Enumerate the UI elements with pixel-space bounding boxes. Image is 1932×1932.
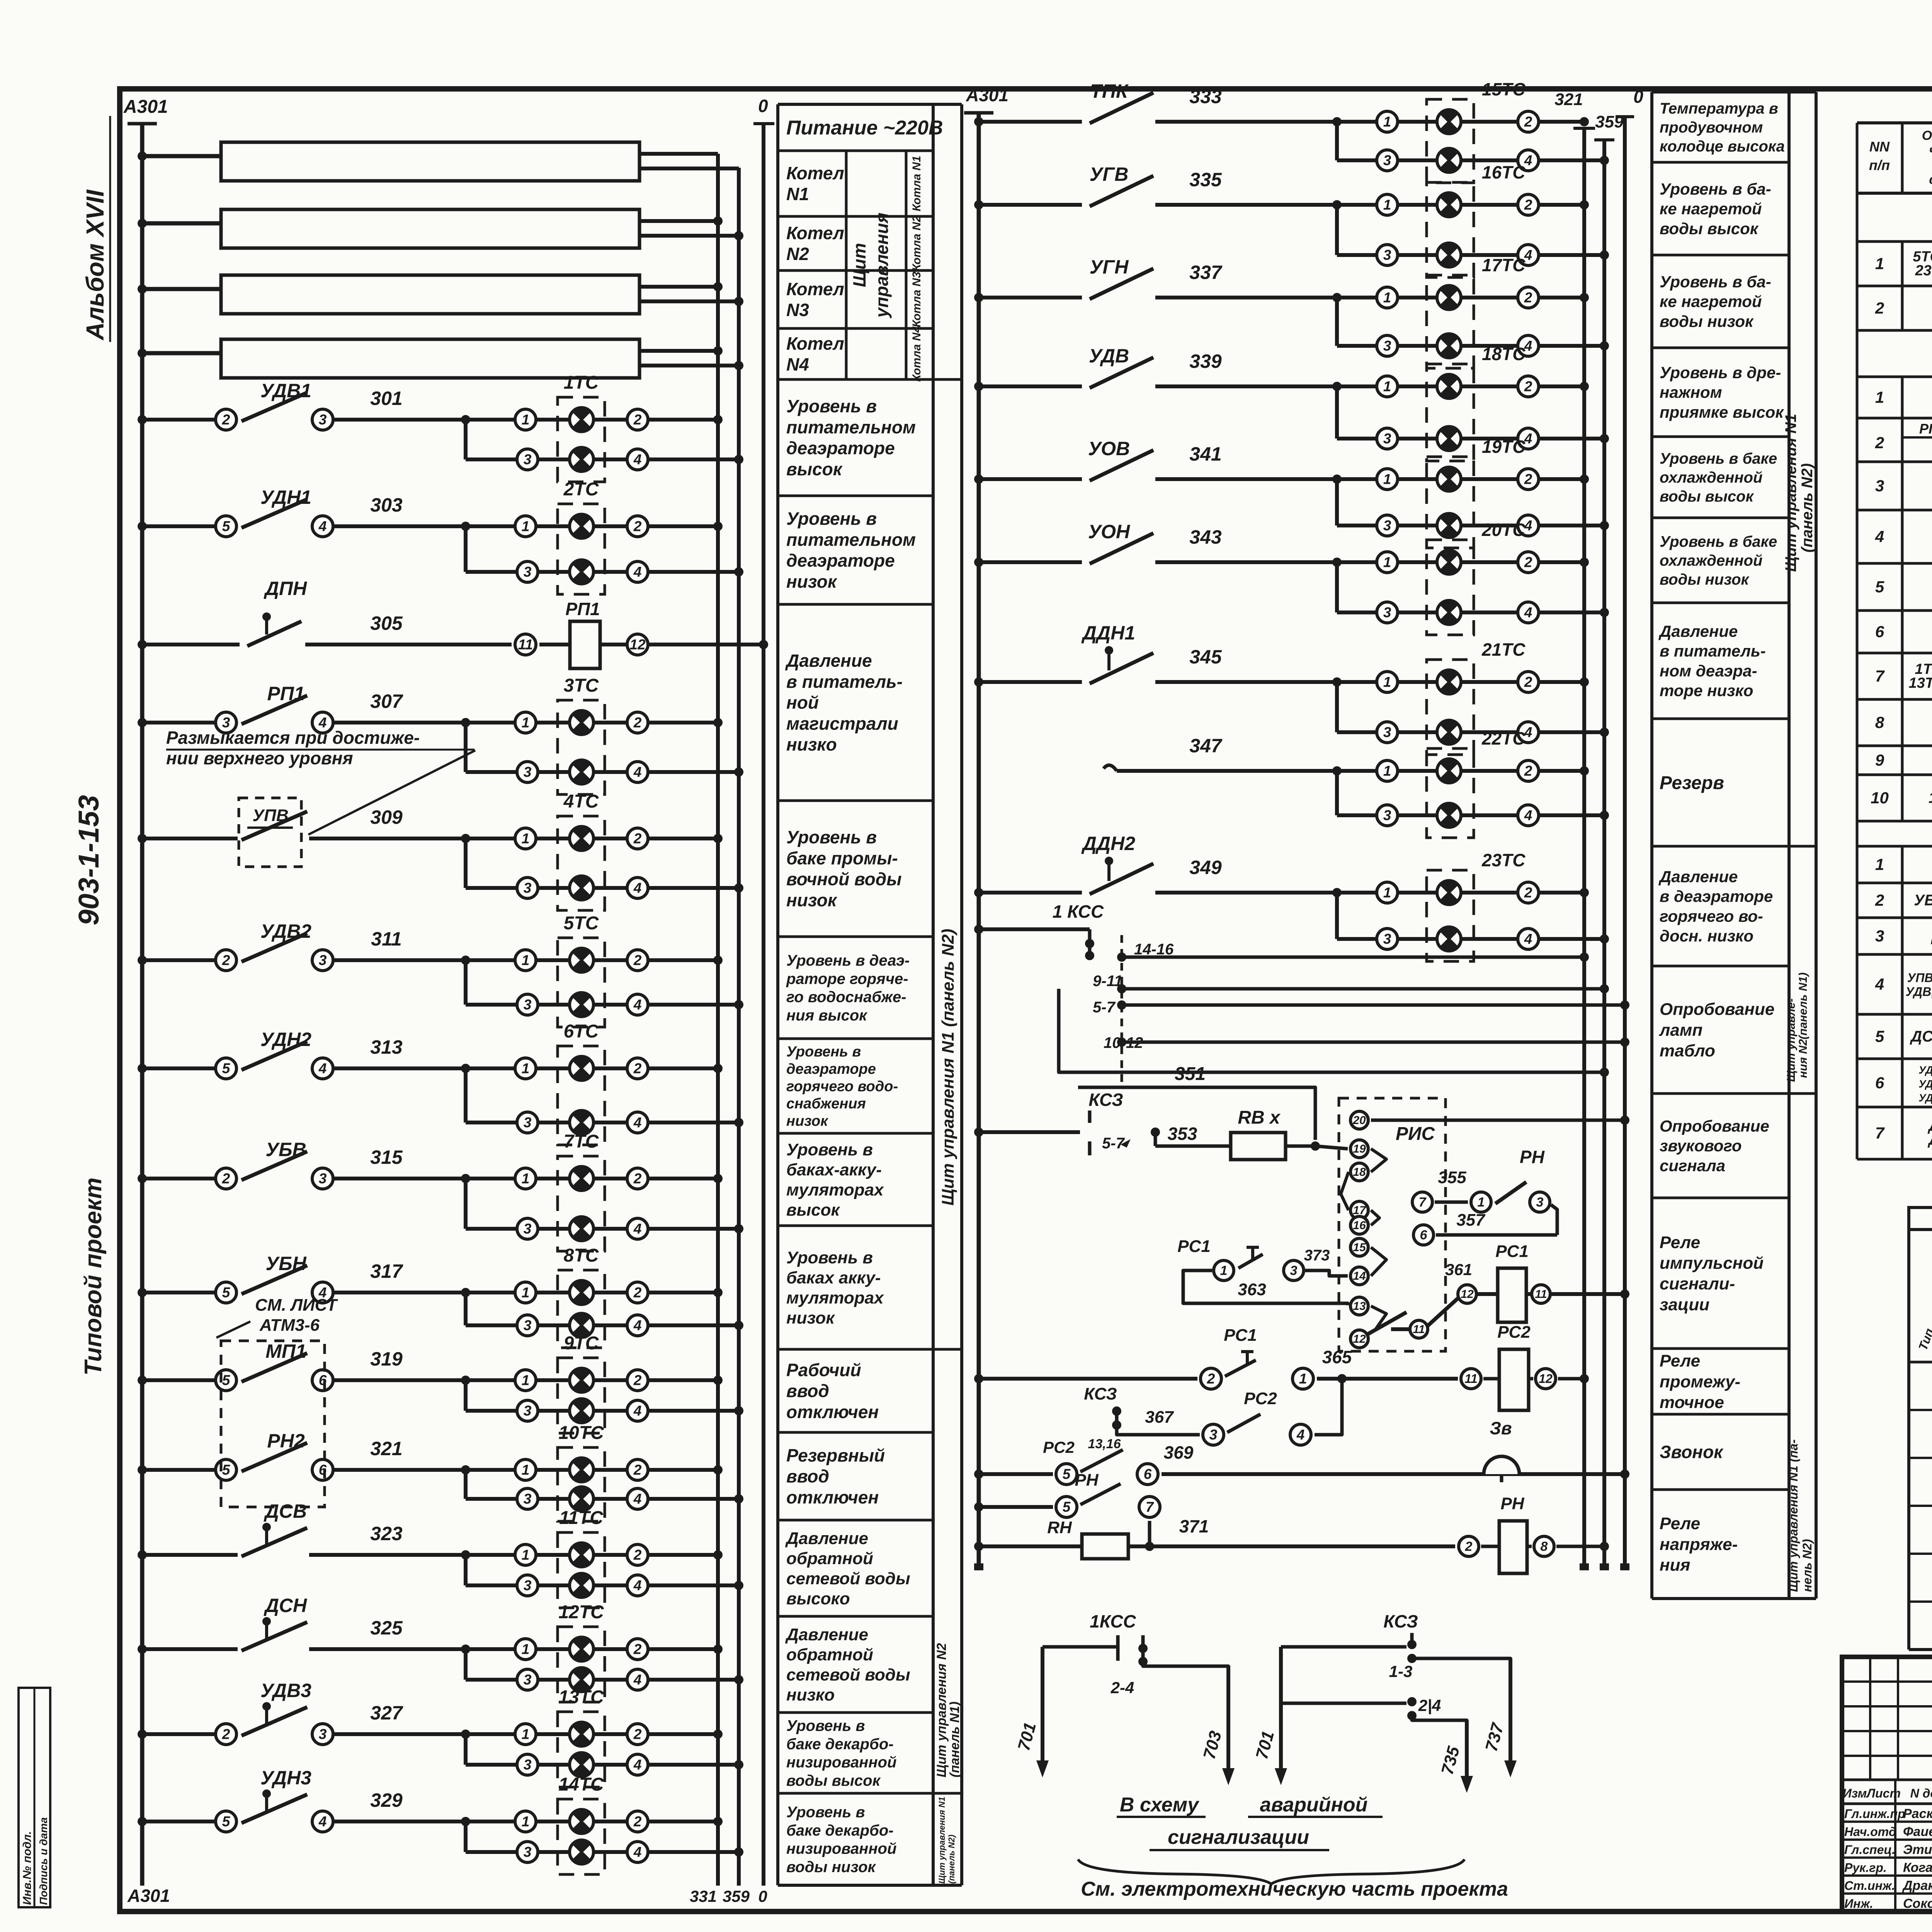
svg-text:3: 3 [1209,1427,1218,1443]
wire Kotel N3 box to collector 331 [639,285,718,289]
svg-text:371: 371 [1179,1516,1209,1536]
svg-text:2: 2 [222,1171,230,1187]
table row B9 (bell) [1856,746,1859,775]
svg-text:Уровень в ба-: Уровень в ба- [1660,180,1771,198]
svg-text:УПВ,УГВ,УГН: УПВ,УГВ,УГН [1907,971,1932,985]
svg-text:1: 1 [1383,290,1391,306]
bus 359 right (vertical) [1602,139,1606,1568]
signal rung 327 (УДВ3) [142,1732,222,1736]
svg-text:2: 2 [633,1372,642,1388]
svg-text:Температура в: Температура в [1660,100,1778,117]
RS1 coil wiring [1428,1298,1458,1326]
lamp board 6ТС dashed box [558,1046,605,1145]
RIS pin 15 [1350,1238,1368,1256]
svg-text:Коганов: Коганов [1903,1861,1932,1875]
svg-text:4: 4 [633,1115,642,1131]
svg-text:Уровень в: Уровень в [786,1248,873,1267]
column1 cell: Давление [778,1711,933,1714]
svg-text:Размыкается при достиже-: Размыкается при достиже- [166,728,420,748]
table row C3 (EKM) [1856,918,1859,954]
lamp board 23ТС dashed box [1427,870,1474,961]
wire 363 to RIS pin 13 [1183,1270,1348,1305]
remote contacts MP1 RN2 dashed box [221,1341,325,1507]
svg-text:УГВ: УГВ [1090,163,1129,185]
svg-text:12: 12 [1539,1372,1553,1386]
svg-text:2: 2 [1524,197,1532,213]
svg-text:1: 1 [1383,114,1391,130]
svg-text:2: 2 [633,1462,642,1478]
svg-text:воды низок: воды низок [1660,312,1754,330]
svg-text:2: 2 [633,1547,642,1563]
svg-text:УДВ1,УДН1: УДВ1,УДН1 [1918,1078,1932,1090]
lamp board 21ТС dashed box [1427,660,1474,755]
column1 cell: Котел [778,215,933,218]
svg-text:4: 4 [633,1757,642,1773]
svg-text:3: 3 [524,1221,532,1237]
svg-text:колодце высока: колодце высока [1660,138,1785,155]
svg-text:4: 4 [633,452,642,468]
svg-text:701: 701 [1014,1720,1040,1753]
svg-text:УДВ,УОВ,УОН: УДВ,УОВ,УОН [1906,985,1932,999]
bus 321 right (vertical) [1582,128,1586,1568]
RIS pin 13 [1350,1297,1368,1315]
svg-text:1КСС: 1КСС [1090,1611,1136,1631]
svg-text:10: 10 [1871,789,1889,807]
column2 cell: Уровень в ба- [1652,347,1789,349]
svg-text:1КСС: 1КСС [1929,789,1932,806]
svg-text:345: 345 [1189,646,1222,668]
column2 cell: Опробование [1652,1197,1789,1199]
svg-text:4: 4 [318,519,327,534]
svg-text:5-7: 5-7 [1093,999,1116,1016]
svg-text:5: 5 [222,1285,231,1301]
lamp board 16ТС dashed box [1427,182,1474,277]
alarm arrow 701 left [1036,1647,1049,1777]
table row A2 (lamp) [1856,286,1859,330]
svg-text:отключен: отключен [786,1487,879,1507]
svg-text:5: 5 [1875,1027,1884,1046]
svg-text:ввод: ввод [786,1381,829,1401]
svg-text:охлажденной: охлажденной [1660,469,1762,486]
svg-text:0: 0 [1633,87,1643,107]
lamp board 5ТС dashed box [558,938,605,1027]
svg-text:КСЗ: КСЗ [1084,1384,1117,1403]
svg-text:367: 367 [1145,1408,1174,1427]
lamp test wire to bus 359 [1122,987,1604,991]
svg-text:1: 1 [1383,763,1391,779]
svg-text:РН: РН [1075,1471,1099,1490]
svg-text:Уровень в дре-: Уровень в дре- [1660,363,1781,381]
svg-text:Щит управления N1 (па-: Щит управления N1 (па- [1786,1439,1800,1592]
column1 cell: Давление [778,799,933,802]
svg-text:высоко: высоко [786,1589,850,1608]
column2 cell: Реле [1652,1413,1789,1416]
svg-text:4: 4 [318,1061,327,1077]
svg-text:3: 3 [524,880,532,896]
svg-text:1: 1 [1383,471,1391,487]
column2 cell: Реле [1652,1347,1789,1350]
svg-text:15ТС: 15ТС [1482,79,1526,99]
svg-text:12: 12 [1353,1333,1366,1345]
svg-text:2: 2 [1524,554,1532,570]
wire to RIS pin 19 [1315,1146,1348,1149]
svg-text:Котел: Котел [786,163,844,183]
svg-text:низко: низко [786,1685,835,1704]
svg-text:Подпись и дата: Подпись и дата [37,1817,49,1905]
svg-text:20: 20 [1352,1114,1366,1127]
svg-text:Инж.: Инж. [1844,1897,1873,1911]
svg-text:Рук.гр.: Рук.гр. [1844,1861,1887,1875]
bus 331 (vertical, left ladder) [716,154,720,1886]
svg-text:6: 6 [1875,1074,1884,1092]
boiler feeder box Kotel N4 [221,339,639,378]
svg-text:горячего во-: горячего во- [1660,907,1763,925]
title block outer [1842,1657,1932,1912]
svg-text:363: 363 [1238,1280,1266,1299]
lamp board 13ТС dashed box [558,1712,605,1787]
svg-text:4: 4 [633,1844,642,1860]
svg-text:Уровень в: Уровень в [786,1044,861,1060]
RIS pin 20 wire to bus 0 [1371,1119,1625,1122]
alarm arrow 737 [1412,1658,1510,1665]
column2 cell: Давление [1652,965,1789,968]
svg-text:баках акку-: баках акку- [786,1268,881,1287]
svg-text:5: 5 [1875,578,1884,596]
svg-text:15: 15 [1353,1241,1366,1254]
column1 cell: Уровень в [778,1792,933,1795]
svg-text:N1: N1 [786,184,809,204]
svg-text:1ТС: 1ТС [564,372,599,393]
signal rung 335 (УГВ) [979,203,1082,207]
svg-text:Нач.отд: Нач.отд [1844,1825,1896,1839]
lamp board 8ТС dashed box [558,1270,605,1348]
wire Kotel N4 box to collector 359 [639,364,739,367]
contact RS1 with button [1214,1260,1234,1281]
svg-text:Инв.№ подл.: Инв.№ подл. [21,1831,34,1905]
svg-text:23ТС,22С: 23ТС,22С [1915,263,1932,279]
svg-text:13,16: 13,16 [1088,1437,1121,1451]
svg-text:УОВ: УОВ [1088,438,1130,459]
svg-text:16: 16 [1353,1219,1366,1232]
svg-text:4ТС: 4ТС [563,791,599,812]
curly brace [1078,1859,1464,1884]
svg-text:импульсной: импульсной [1660,1254,1764,1273]
lamp board 20ТС dashed box [1427,540,1474,635]
svg-text:5: 5 [222,1372,231,1388]
svg-text:низированной: низированной [786,1754,896,1771]
signal rung 319 (МП1) [142,1378,222,1382]
svg-text:11ТС: 11ТС [559,1508,604,1528]
signal rung 337 (УГН) [979,296,1082,299]
svg-text:2: 2 [633,1171,642,1187]
svg-text:АТМ3-6: АТМ3-6 [259,1316,320,1335]
svg-text:737: 737 [1482,1720,1508,1753]
relay RIS dashed box [1339,1098,1446,1351]
svg-text:12ТС: 12ТС [558,1602,604,1622]
svg-text:4: 4 [633,764,642,780]
svg-text:воды низок: воды низок [786,1859,876,1876]
lamp board 1ТС dashed box [558,397,605,482]
svg-text:4: 4 [1524,605,1532,621]
lamp board 9ТС dashed box [558,1358,605,1433]
wire bus to Kotel N4 box [142,351,221,355]
svg-text:4: 4 [633,564,642,580]
title block small grid [1842,1680,1932,1683]
signal rung 305 (DPN pressure contact) [142,643,240,646]
svg-text:РС2: РС2 [1244,1389,1277,1408]
column1 outer borders [776,104,779,1885]
svg-text:903-1-153: 903-1-153 [73,795,105,925]
svg-text:звукового: звукового [1660,1137,1742,1155]
svg-text:питательном: питательном [786,529,916,549]
wire bus to Kotel N3 box [142,287,221,291]
table row B4 (RN relay) [1856,510,1859,563]
svg-text:УДВ: УДВ [1089,345,1129,367]
svg-text:Опробование: Опробование [1660,1117,1769,1135]
lamp test wire to bus 0 [1122,1003,1625,1007]
svg-text:ДСВ: ДСВ [264,1500,307,1522]
svg-text:снабжения: снабжения [786,1096,866,1112]
svg-text:Котел: Котел [786,333,844,354]
svg-text:4: 4 [633,1578,642,1594]
table header grid [1856,123,1859,193]
svg-text:питательном: питательном [786,417,916,437]
svg-text:в питатель-: в питатель- [786,672,903,692]
svg-text:7ТС: 7ТС [564,1131,599,1152]
svg-text:вочной воды: вочной воды [786,869,901,889]
svg-text:обратной: обратной [786,1645,873,1664]
title block vert dividers sig [1894,1780,1896,1912]
svg-text:аварийной: аварийной [1260,1794,1368,1816]
svg-text:19ТС: 19ТС [1482,437,1526,457]
svg-text:РС2: РС2 [1497,1323,1531,1342]
svg-text:361: 361 [1445,1260,1472,1279]
wire bus to Kotel N2 box [142,221,221,226]
svg-text:11: 11 [1413,1323,1425,1336]
svg-text:11: 11 [1464,1372,1477,1386]
svg-text:333: 333 [1189,86,1222,107]
table row C4 (RM-51) [1856,954,1859,1014]
svg-text:деаэраторе: деаэраторе [786,551,895,571]
margin stamp boxes bottom left [19,1688,50,1907]
column1 cell: Питание ~220В [778,150,933,152]
svg-text:2: 2 [1524,674,1532,690]
switch KSZ contact [979,1130,1080,1134]
svg-text:18ТС: 18ТС [1482,344,1526,364]
bus 0 (vertical, left ladder) [762,123,765,1886]
svg-text:18: 18 [1353,1166,1366,1179]
svg-text:703: 703 [1200,1729,1225,1761]
svg-text:2ТС: 2ТС [563,479,599,500]
svg-text:16ТС: 16ТС [1482,162,1526,182]
svg-text:ке нагретой: ке нагретой [1660,200,1762,218]
title block signature Раскин [1842,1821,1932,1823]
table row C2 (ERSU) [1856,883,1859,918]
signal rung 315 (УБВ) [142,1177,222,1180]
table row C6 (DSP-778) [1856,1059,1859,1107]
alarm arrow 703 [1143,1662,1228,1669]
column1 cell: Уровень в [778,935,933,938]
svg-text:муляторах: муляторах [786,1180,884,1199]
svg-text:1: 1 [1383,554,1391,570]
relay coil RS1 [1498,1268,1526,1322]
column2 cell: Звонок [1652,1488,1789,1491]
svg-text:4: 4 [633,997,642,1013]
svg-text:Реле: Реле [1660,1352,1700,1371]
signal rung 339 (УДВ) [979,384,1082,388]
svg-text:3: 3 [319,412,327,428]
svg-text:1: 1 [522,412,530,428]
svg-text:Этинген: Этинген [1903,1842,1932,1857]
svg-text:N3: N3 [786,300,809,320]
svg-text:1: 1 [1383,197,1391,213]
lamp board 7ТС dashed box [558,1156,605,1251]
svg-text:335: 335 [1189,169,1222,190]
signal rung 329 (УДН3) [142,1820,222,1823]
svg-text:деаэраторе: деаэраторе [786,438,895,458]
signal rung 321 (РН2) [142,1468,222,1472]
svg-text:4: 4 [633,1491,642,1507]
svg-text:2: 2 [633,519,642,534]
svg-text:4: 4 [633,1403,642,1419]
lamp board 19ТС dashed box [1427,457,1474,548]
relay coil RS2 [1461,1369,1481,1389]
svg-text:4: 4 [1524,931,1532,947]
svg-text:301: 301 [370,388,402,409]
svg-text:УГН: УГН [1090,256,1129,278]
signal rung 303 (УДН1) [142,524,222,528]
svg-text:2: 2 [1875,434,1884,452]
signal rung 349 (ДДН2) [979,891,1082,895]
svg-text:1: 1 [1875,855,1884,874]
svg-text:2: 2 [633,831,642,847]
svg-text:2: 2 [222,952,230,968]
svg-text:6: 6 [1144,1466,1152,1482]
svg-text:го водоснабже-: го водоснабже- [786,989,906,1006]
column2 cell: Опробование [1652,1092,1789,1095]
svg-text:СМ. ЛИСТ: СМ. ЛИСТ [255,1296,338,1315]
signal rung 347 (reserve) [1104,765,1117,771]
svg-text:Изм: Изм [1843,1786,1867,1800]
RIS pin 16 [1350,1216,1368,1234]
svg-text:5: 5 [1063,1499,1071,1515]
svg-text:в деаэраторе: в деаэраторе [1660,887,1773,905]
svg-text:Котла N4: Котла N4 [910,326,923,382]
svg-text:2: 2 [1875,299,1884,317]
signal rung 333 (ТПК) [979,120,1082,124]
svg-text:1: 1 [1383,674,1391,690]
svg-text:4: 4 [1875,527,1884,546]
boiler feeder box Kotel N1 [221,142,639,181]
KSZ key row 21-24 [1909,1648,1932,1651]
svg-text:2: 2 [222,412,230,428]
svg-text:РП1-РС2: РП1-РС2 [1919,421,1932,437]
svg-text:313: 313 [370,1036,403,1058]
svg-text:УОН: УОН [1088,521,1130,543]
switch 1KSS 2-4 (to alarm) [1043,1645,1118,1649]
svg-text:11: 11 [518,637,533,653]
svg-text:ТПК: ТПК [1090,80,1129,102]
svg-text:7: 7 [1875,667,1885,685]
wire Kotel N2 box to collector 359 [639,234,739,238]
table row C5 (DD-4) [1856,1014,1859,1059]
svg-text:торе низко: торе низко [1660,682,1753,700]
svg-text:продувочном: продувочном [1660,119,1763,136]
boiler feeder box Kotel N3 [221,275,639,314]
relay coil RP1 [570,621,600,668]
svg-text:высок: высок [786,459,843,479]
svg-text:РН: РН [1500,1494,1524,1513]
svg-text:3: 3 [319,952,327,968]
svg-text:4: 4 [1875,975,1884,993]
svg-text:Уровень в баке: Уровень в баке [1660,450,1777,467]
svg-text:3: 3 [524,997,532,1013]
svg-text:N4: N4 [786,354,809,374]
svg-text:Уровень в деаэ-: Уровень в деаэ- [786,952,910,969]
svg-text:305: 305 [370,612,403,634]
svg-text:321: 321 [370,1438,402,1459]
wire Kotel N2 box to collector 331 [639,219,718,223]
svg-text:9: 9 [1875,751,1884,769]
svg-text:1: 1 [522,1171,530,1187]
lamp board 12ТС dashed box [558,1627,605,1702]
svg-text:РИС: РИС [1396,1124,1435,1144]
svg-text:329: 329 [370,1789,403,1811]
svg-text:7: 7 [1875,1124,1885,1142]
signal rung 367 (RS2 contact) [1117,1430,1200,1435]
svg-text:RН: RН [1047,1518,1072,1537]
svg-text:3: 3 [1383,808,1391,823]
svg-text:Рабочий: Рабочий [786,1360,861,1380]
svg-text:2: 2 [633,715,642,731]
svg-text:горячего водо-: горячего водо- [786,1078,898,1095]
svg-text:3: 3 [1383,518,1391,534]
svg-text:низок: низок [786,890,838,910]
svg-text:схеме: схеме [1929,172,1932,187]
svg-text:13ТС: 13ТС [558,1687,604,1708]
svg-text:2: 2 [1465,1539,1473,1554]
svg-text:3: 3 [524,764,532,780]
svg-text:воды высок: воды высок [786,1772,881,1789]
svg-text:307: 307 [370,690,403,712]
lamp board 4ТС dashed box [558,816,605,910]
svg-text:нель N2): нель N2) [1800,1539,1814,1592]
RIS pin 20 [1350,1111,1368,1129]
column2 cell: Давление [1652,718,1789,720]
svg-text:Гл.спец.: Гл.спец. [1844,1843,1895,1857]
svg-text:воды высок: воды высок [1660,488,1754,505]
svg-text:УБВ: УБВ [265,1139,306,1160]
svg-text:4: 4 [1524,808,1532,823]
svg-text:Уровень в: Уровень в [786,396,877,416]
svg-text:ДСВ, ДСН: ДСВ, ДСН [1910,1028,1932,1045]
svg-text:4: 4 [318,1814,327,1830]
switch 1KSS feeder wire [979,927,1090,931]
svg-text:9ТС: 9ТС [564,1333,599,1354]
bus 359 (vertical, left ladder) [737,168,741,1886]
svg-text:сигнала: сигнала [1660,1156,1725,1175]
svg-text:напряже-: напряже- [1660,1535,1738,1554]
svg-text:701: 701 [1252,1729,1278,1761]
lamp test wire 10-12 [1122,1041,1625,1044]
svg-text:зации: зации [1660,1295,1709,1314]
svg-text:369: 369 [1164,1442,1194,1463]
signal rung 323 (ДСВ) [142,1553,238,1557]
column1 cell: Котел [778,269,933,272]
signal rung 301 (УДВ1) [142,418,222,422]
svg-text:353: 353 [1168,1124,1197,1144]
svg-text:Давление: Давление [785,1625,868,1644]
